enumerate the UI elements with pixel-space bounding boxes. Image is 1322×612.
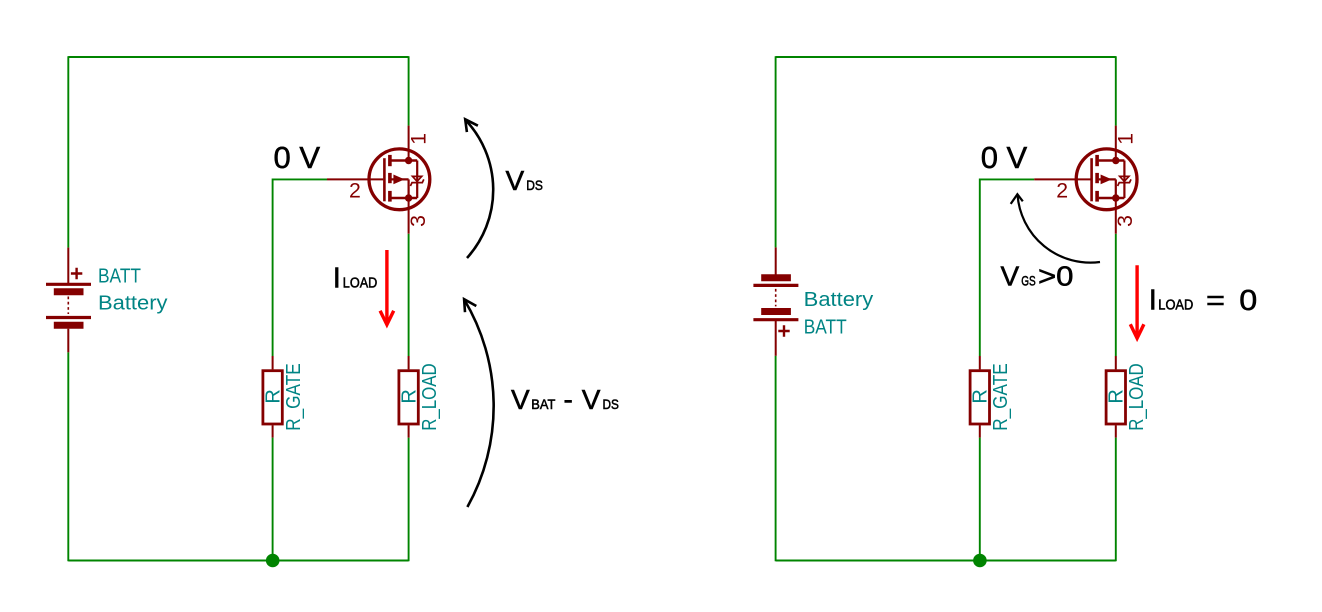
Q2 source link <box>1099 197 1125 199</box>
resistor R_GATE (right) <box>970 356 989 438</box>
battery BT1 pin + (top) <box>67 248 69 283</box>
Q1 pin 1 drain stub <box>408 126 410 161</box>
Q2 source junction dot <box>1112 194 1119 201</box>
battery BT2 short plate 2 <box>761 308 791 315</box>
svg-text:Battery: Battery <box>98 293 168 315</box>
battery BT2 plus sign <box>778 325 789 336</box>
annotation: V_BAT - V_DS curved arrow <box>464 299 494 507</box>
svg-text:0: 0 <box>1239 285 1257 317</box>
Q2 channel segment bottom <box>1095 191 1099 202</box>
svg-text:1: 1 <box>406 133 430 145</box>
svg-text:R_LOAD: R_LOAD <box>1126 363 1148 431</box>
battery BT1 dashed center link <box>67 297 69 315</box>
Q1 pin 3 source stub <box>408 198 410 234</box>
wire: drain net (top rail to Q1 pin 1) <box>408 56 410 125</box>
wire: top rail right circuit <box>776 56 1116 58</box>
R_GATE top pin stub <box>272 356 274 369</box>
Q2 substrate arrow <box>1101 175 1112 185</box>
svg-text:1: 1 <box>1114 133 1138 145</box>
battery BT2 long plate 1 <box>753 284 798 287</box>
Q1 body diode triangle <box>413 176 422 181</box>
svg-text:LOAD: LOAD <box>1158 297 1193 313</box>
svg-text:0 V: 0 V <box>981 140 1028 175</box>
Q1 source link <box>392 197 418 199</box>
R_GATE body rectangle <box>263 371 282 424</box>
battery BT1 long plate 2 <box>46 316 91 319</box>
svg-text:BATT: BATT <box>98 266 141 288</box>
wire: R_LOAD bottom to bottom rail right circuit <box>1115 438 1117 562</box>
Q1 channel segment middle <box>388 173 392 183</box>
svg-text:BAT: BAT <box>531 396 555 412</box>
Q1 body circle <box>369 149 430 210</box>
Q1 source junction dot <box>405 194 412 201</box>
wire: gate net horizontal right circuit <box>980 178 1034 180</box>
wire: R_LOAD bottom to bottom rail <box>408 438 410 562</box>
resistor R_LOAD (right) <box>1106 356 1125 438</box>
R_LOAD top pin stub <box>408 356 410 369</box>
Q1 drain junction dot <box>405 157 412 164</box>
Q2 drain link <box>1099 159 1125 161</box>
Q2 pin 3 source stub <box>1115 198 1117 234</box>
Q1 channel segment bottom <box>388 191 392 202</box>
Q2 bulk horizontal line <box>1099 178 1116 180</box>
Q1 bulk horizontal line <box>392 178 409 180</box>
wire: bottom rail left circuit <box>68 560 408 562</box>
svg-text:3: 3 <box>406 215 430 227</box>
svg-text:2: 2 <box>349 178 361 202</box>
wire: left rail upper (battery + to top) <box>67 56 69 247</box>
svg-text:>0: >0 <box>1038 261 1074 292</box>
wire: gate net vertical (down to R_GATE) <box>272 179 274 357</box>
Q1 body diode branch vertical <box>416 161 418 199</box>
annotation: V_GS>0 curved arrow <box>1011 194 1100 262</box>
svg-text:LOAD: LOAD <box>343 276 378 292</box>
svg-text:2: 2 <box>1056 178 1068 202</box>
Q2 pin 1 drain stub <box>1115 126 1117 161</box>
R_LOAD body rectangle <box>399 371 418 424</box>
svg-text:GS: GS <box>1021 273 1035 289</box>
Q2 body diode cathode bar with zener tails <box>1118 179 1131 186</box>
Q2 body diode branch vertical <box>1123 161 1125 199</box>
right R_GATE bottom pin stub <box>979 425 981 437</box>
wire: gate net vertical right circuit <box>979 179 981 357</box>
svg-text:=: = <box>1206 284 1225 315</box>
svg-text:R: R <box>1106 389 1128 403</box>
svg-text:R_LOAD: R_LOAD <box>419 363 441 431</box>
svg-text:V: V <box>1001 261 1020 292</box>
battery BT1 (left) <box>46 248 91 353</box>
annotation: V_DS curved arrow <box>465 119 493 258</box>
svg-text:R_GATE: R_GATE <box>283 363 305 431</box>
battery BT2 pin - (top) <box>775 247 777 277</box>
Q1 channel segment top <box>388 155 392 166</box>
wire: left rail lower (battery - to bottom) <box>67 352 69 561</box>
right R_LOAD body rectangle <box>1106 371 1125 424</box>
junction: bottom rail node right circuit <box>973 554 987 568</box>
Q1 body diode cathode bar with zener tails <box>410 179 423 186</box>
Q1 substrate arrow <box>393 175 404 185</box>
wire: gate net horizontal (0V node to Q1 pin 2) <box>273 178 327 180</box>
wire: top rail left circuit <box>68 56 408 58</box>
svg-text:Battery: Battery <box>804 289 874 311</box>
junction: bottom rail node left circuit <box>266 554 280 568</box>
Q2 channel segment middle <box>1095 173 1099 183</box>
wire: source net right circuit <box>1115 234 1117 356</box>
transistor Q1 (NMOS with body diode, left) <box>327 126 430 234</box>
battery BT1 long plate 1 <box>46 283 91 286</box>
battery BT1 pin - (bottom) <box>67 329 69 353</box>
Q1 gate pin stub <box>327 178 383 180</box>
svg-text:I: I <box>1149 284 1157 316</box>
Q2 body circle <box>1076 149 1137 210</box>
right R_LOAD bottom pin stub <box>1115 425 1117 437</box>
Q2 gate bar <box>1090 158 1093 201</box>
wire: drain net right circuit <box>1115 56 1117 125</box>
svg-text:V: V <box>511 384 530 415</box>
battery BT1 short plate 2 <box>54 322 84 329</box>
transistor Q2 (NMOS with body diode, right) <box>1034 126 1137 234</box>
resistor R_LOAD (left) <box>399 356 418 438</box>
battery BT2 dashed center link <box>775 289 777 307</box>
svg-text:V: V <box>506 165 525 196</box>
resistor R_GATE (left) <box>263 356 282 438</box>
wire: R_GATE bottom to bottom rail right circuit <box>979 438 981 562</box>
wire: bottom rail right circuit <box>776 560 1116 562</box>
battery BT1 plus sign <box>71 268 82 279</box>
Q2 bulk-source vertical <box>1115 179 1117 198</box>
wire: R_GATE bottom to bottom rail <box>272 438 274 562</box>
right R_LOAD top pin stub <box>1115 356 1117 369</box>
battery BT1 short plate 1 <box>54 288 84 295</box>
svg-text:I: I <box>333 263 341 295</box>
svg-text:R: R <box>970 389 992 403</box>
svg-text:BATT: BATT <box>804 317 847 339</box>
svg-text:V: V <box>582 384 601 415</box>
svg-text:0 V: 0 V <box>274 140 321 175</box>
svg-text:R: R <box>399 389 421 403</box>
R_GATE bottom pin stub <box>272 425 274 437</box>
annotation: I_LOAD current arrow (left, red) <box>380 250 394 325</box>
Q1 bulk-source vertical <box>408 179 410 198</box>
Q2 channel segment top <box>1095 155 1099 166</box>
battery BT2 (right, flipped) <box>753 247 798 355</box>
Q2 body diode triangle <box>1120 176 1129 181</box>
right R_GATE top pin stub <box>979 356 981 369</box>
wire: source net (Q1 pin 3 to R_LOAD) <box>408 234 410 356</box>
annotation: I_LOAD current arrow (right, red) <box>1130 265 1144 338</box>
battery BT2 long plate 2 <box>753 318 798 321</box>
svg-text:DS: DS <box>603 396 619 412</box>
svg-text:-: - <box>564 384 573 415</box>
battery BT2 pin + (bottom) <box>775 321 777 356</box>
R_LOAD bottom pin stub <box>408 425 410 437</box>
wire: left rail lower right circuit <box>775 356 777 562</box>
Q1 gate bar <box>383 158 386 201</box>
right R_GATE body rectangle <box>970 371 989 424</box>
svg-text:DS: DS <box>526 177 543 193</box>
Q1 drain link <box>392 159 418 161</box>
svg-text:R_GATE: R_GATE <box>990 363 1012 430</box>
svg-text:R: R <box>263 389 285 403</box>
wire: left rail upper right circuit <box>775 56 777 247</box>
svg-text:3: 3 <box>1113 215 1137 227</box>
Q2 drain junction dot <box>1112 157 1119 164</box>
Q2 gate pin stub <box>1034 178 1090 180</box>
battery BT2 short plate 1 <box>761 274 791 281</box>
